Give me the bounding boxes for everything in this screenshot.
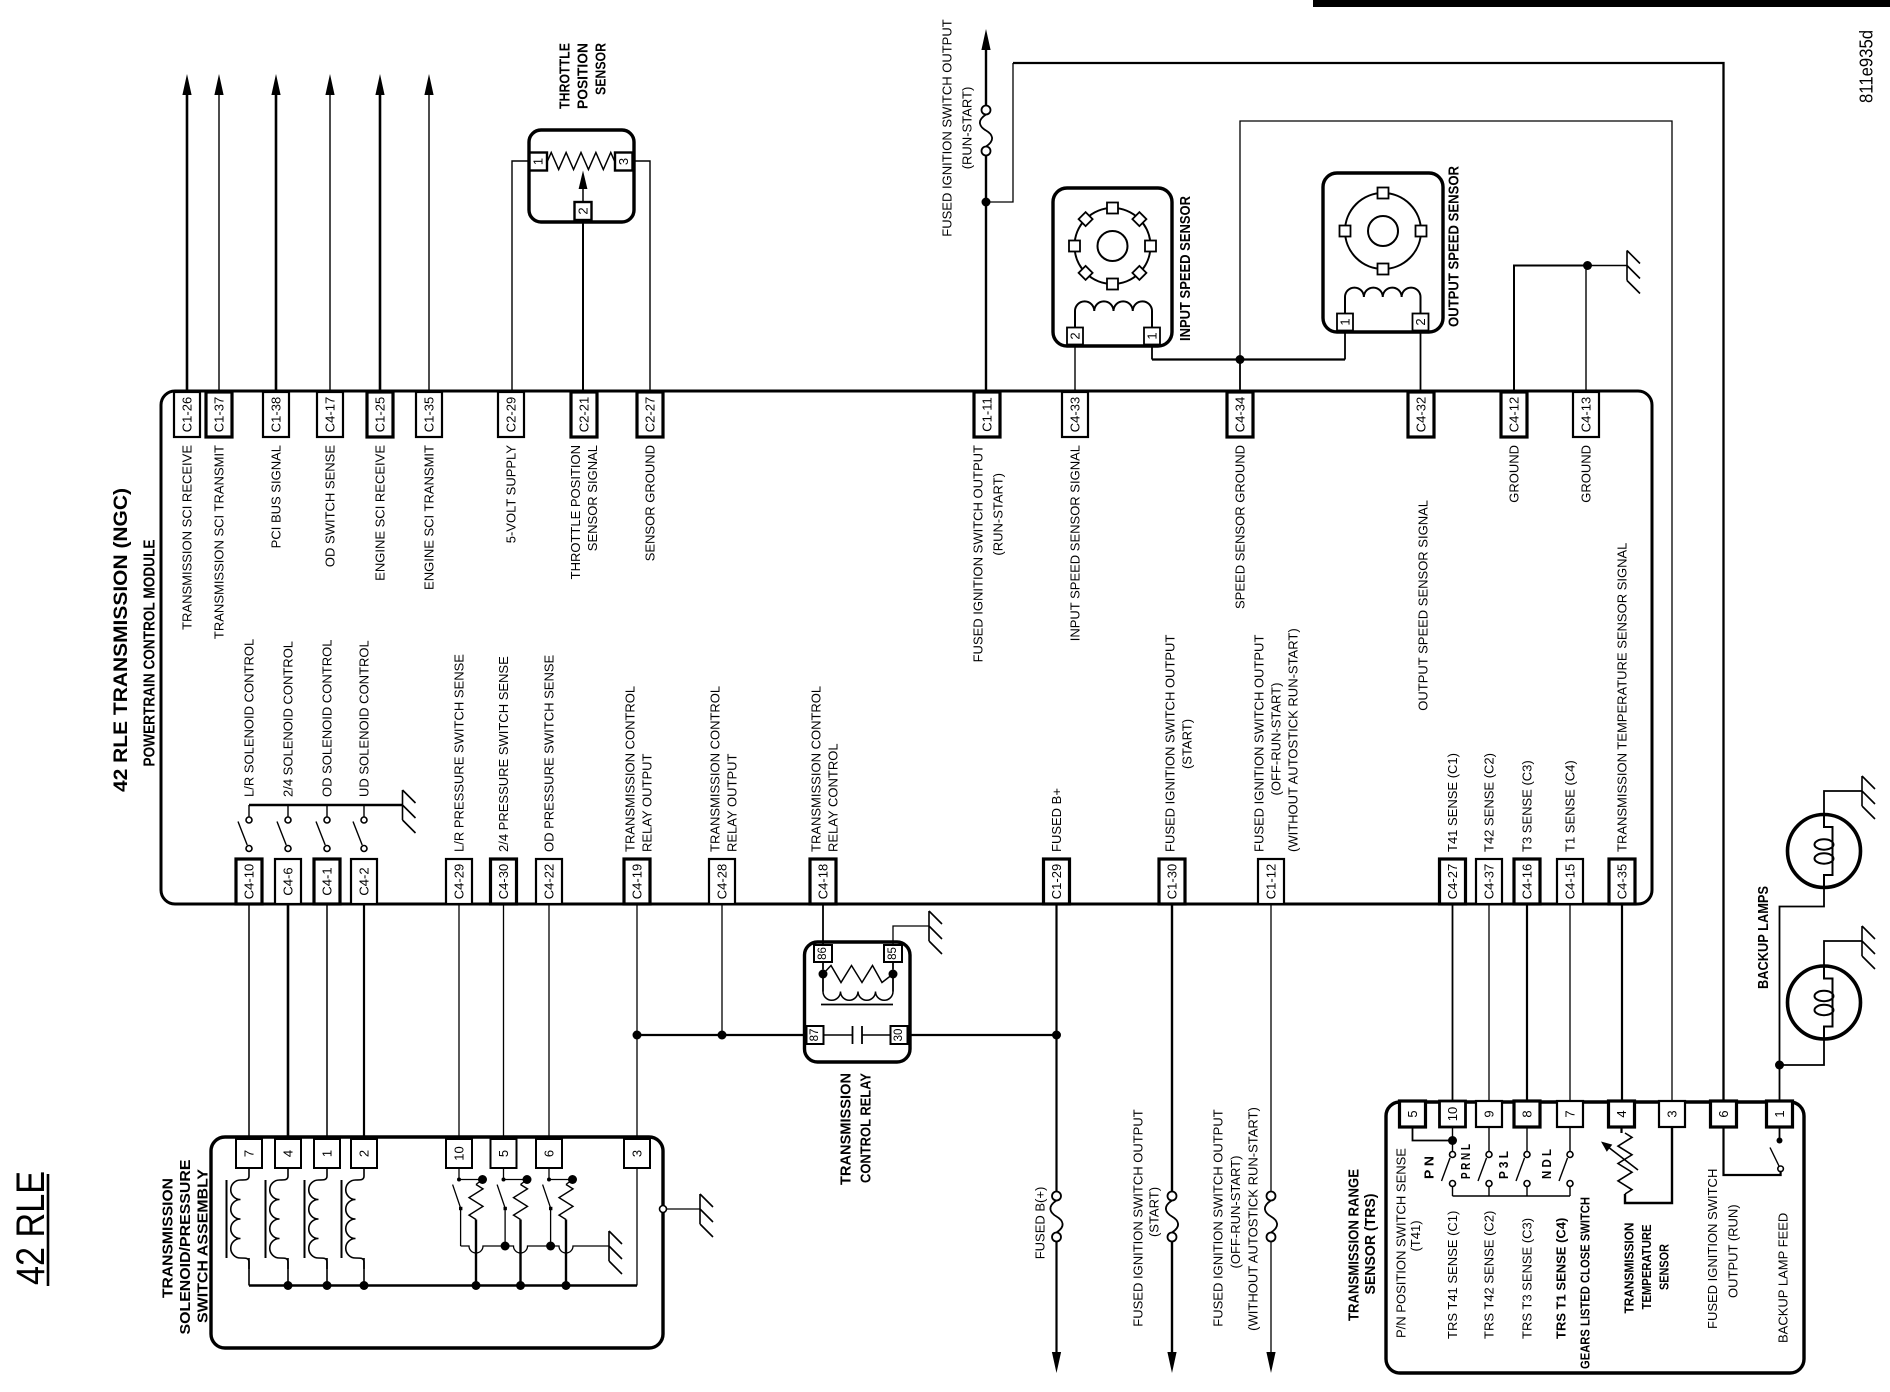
svg-text:TRANSMISSION SCI RECEIVE: TRANSMISSION SCI RECEIVE bbox=[180, 445, 195, 630]
svg-text:N D L: N D L bbox=[1539, 1149, 1554, 1179]
svg-text:C4-1: C4-1 bbox=[320, 867, 335, 895]
svg-text:TRANSMISSION: TRANSMISSION bbox=[1622, 1223, 1637, 1314]
svg-text:UD SOLENOID CONTROL: UD SOLENOID CONTROL bbox=[357, 640, 372, 797]
arrowhead run-start feed bbox=[981, 29, 990, 50]
TRS switch P 3 L bbox=[1526, 1127, 1528, 1152]
svg-text:(START): (START) bbox=[1180, 719, 1195, 769]
fuse ignition start bbox=[1168, 1192, 1177, 1201]
TRS pin 3 bbox=[1659, 1101, 1685, 1127]
svg-text:FUSED B+: FUSED B+ bbox=[1049, 788, 1064, 852]
svg-text:ENGINE SCI RECEIVE: ENGINE SCI RECEIVE bbox=[373, 445, 388, 581]
wire from C1-25 upward bbox=[379, 95, 382, 391]
svg-text:1: 1 bbox=[1338, 318, 1353, 325]
pin C1-26 bbox=[174, 392, 200, 437]
assembly pin 4 bbox=[275, 1139, 301, 1168]
wire PCM to TRS at x=1452.5 bbox=[1452, 904, 1454, 1101]
pressure switch ground line with hops bbox=[461, 1246, 499, 1253]
svg-text:RELAY OUTPUT: RELAY OUTPUT bbox=[725, 753, 740, 852]
pin C4-33 bbox=[1062, 392, 1088, 437]
svg-text:P R N L: P R N L bbox=[1458, 1144, 1473, 1179]
arrowhead C1-25 bbox=[375, 74, 384, 95]
assembly pin 2 bbox=[351, 1139, 377, 1168]
svg-text:BACKUP LAMPS: BACKUP LAMPS bbox=[1755, 886, 1772, 989]
svg-text:C4-37: C4-37 bbox=[1482, 864, 1497, 899]
wire input sensor pin2 to C4-33 bbox=[1074, 345, 1076, 391]
fuse ignition off-run-start bbox=[1267, 1192, 1276, 1201]
header bar bbox=[1313, 0, 1890, 7]
pressure switch blade bbox=[453, 1185, 461, 1208]
pressure switch resistor bbox=[521, 1180, 528, 1185]
junction speed sensor ground bbox=[1236, 355, 1245, 364]
svg-text:C2-27: C2-27 bbox=[643, 397, 658, 432]
svg-text:3: 3 bbox=[1665, 1110, 1680, 1117]
throttle sensor pin 1 bbox=[530, 153, 548, 171]
pin C1-38 bbox=[263, 392, 289, 437]
solenoid coil at pin x=288 bbox=[270, 1169, 288, 1269]
svg-text:GEARS LISTED CLOSE SWITCH: GEARS LISTED CLOSE SWITCH bbox=[1578, 1197, 1593, 1369]
solenoid coil at pin x=327 bbox=[309, 1169, 327, 1269]
svg-text:C4-32: C4-32 bbox=[1414, 397, 1429, 432]
pin C1-29 bbox=[1044, 859, 1070, 904]
svg-text:C4-19: C4-19 bbox=[630, 864, 645, 899]
pin C4-1 bbox=[314, 859, 340, 904]
wire speed sensor return to TRS pin 3 bbox=[1240, 121, 1672, 1101]
throttle sensor pin 2 bbox=[575, 202, 592, 220]
svg-text:C1-30: C1-30 bbox=[1165, 864, 1180, 899]
svg-text:POSITION: POSITION bbox=[575, 43, 592, 109]
svg-text:(WITHOUT AUTOSTICK RUN-START): (WITHOUT AUTOSTICK RUN-START) bbox=[1286, 628, 1301, 852]
output speed sensor bbox=[1323, 173, 1443, 332]
pin C4-13 bbox=[1573, 392, 1599, 437]
svg-text:C4-2: C4-2 bbox=[357, 867, 372, 895]
TRS switch common bus bbox=[1453, 1195, 1571, 1197]
junction resistor top bbox=[478, 1175, 487, 1184]
svg-text:FUSED IGNITION SWITCH OUTPUT: FUSED IGNITION SWITCH OUTPUT bbox=[1252, 635, 1267, 852]
solenoid driver switch at x=288 bbox=[287, 805, 289, 817]
pressure switch circuit at pin x=459 bbox=[458, 1168, 460, 1180]
junction backup lamp feed bbox=[1775, 1061, 1784, 1070]
wire PCM to TRS at x=1527 bbox=[1526, 904, 1528, 1101]
transmission temperature sensor thermistor bbox=[1620, 1127, 1622, 1133]
TRS pin 7 bbox=[1557, 1101, 1583, 1127]
svg-text:C4-29: C4-29 bbox=[452, 864, 467, 899]
svg-text:C2-29: C2-29 bbox=[504, 397, 519, 432]
svg-text:TRS T3 SENSE (C3): TRS T3 SENSE (C3) bbox=[1520, 1218, 1535, 1339]
pin C4-28 bbox=[709, 859, 735, 904]
svg-text:T1 SENSE (C4): T1 SENSE (C4) bbox=[1563, 760, 1578, 852]
junction pin5 pin10 bbox=[1448, 1136, 1457, 1145]
svg-text:TRS T1 SENSE (C4): TRS T1 SENSE (C4) bbox=[1554, 1218, 1569, 1339]
svg-text:C4-13: C4-13 bbox=[1579, 397, 1594, 432]
wire TRS pin 6 to lamp switch bbox=[1724, 1127, 1781, 1175]
pin C4-29 bbox=[446, 859, 472, 904]
svg-text:(RUN-START): (RUN-START) bbox=[991, 473, 1006, 556]
TRS pin 10 bbox=[1440, 1101, 1466, 1127]
PCM module box - POWERTRAIN CONTROL MODULE bbox=[161, 391, 1652, 904]
svg-text:C4-15: C4-15 bbox=[1563, 864, 1578, 899]
throttle position sensor box bbox=[529, 130, 634, 222]
relay pin 30 bbox=[891, 1026, 908, 1044]
pin C4-10 bbox=[236, 859, 262, 904]
wire PCM to TRS at x=1622 bbox=[1621, 904, 1623, 1101]
svg-text:POWERTRAIN CONTROL MODULE: POWERTRAIN CONTROL MODULE bbox=[142, 540, 159, 767]
svg-text:SENSOR GROUND: SENSOR GROUND bbox=[643, 445, 658, 561]
assembly common bus bbox=[249, 1284, 637, 1286]
wire PCM to assembly at x=327 bbox=[326, 904, 328, 1139]
svg-text:BACKUP LAMP FEED: BACKUP LAMP FEED bbox=[1776, 1213, 1791, 1343]
svg-text:2/4 SOLENOID CONTROL: 2/4 SOLENOID CONTROL bbox=[281, 641, 296, 797]
svg-text:OD SWITCH SENSE: OD SWITCH SENSE bbox=[323, 445, 338, 567]
pin C4-19 bbox=[624, 859, 650, 904]
svg-text:L/R PRESSURE SWITCH SENSE: L/R PRESSURE SWITCH SENSE bbox=[452, 654, 467, 852]
svg-text:C1-12: C1-12 bbox=[1264, 864, 1279, 899]
svg-text:TRANSMISSION SCI TRANSMIT: TRANSMISSION SCI TRANSMIT bbox=[212, 445, 227, 639]
wire coil to common bus bbox=[363, 1258, 365, 1286]
svg-text:C1-11: C1-11 bbox=[980, 397, 995, 431]
input speed sensor bbox=[1053, 188, 1172, 346]
svg-text:2/4 PRESSURE SWITCH SENSE: 2/4 PRESSURE SWITCH SENSE bbox=[496, 656, 511, 852]
TRS switch P N bbox=[1452, 1127, 1454, 1152]
wire input sensor pin1 to speed sensor ground bus bbox=[1151, 345, 1153, 360]
svg-text:OD SOLENOID CONTROL: OD SOLENOID CONTROL bbox=[320, 640, 335, 797]
wire PCM to TRS at x=1570 bbox=[1569, 904, 1571, 1101]
svg-text:T42 SENSE (C2): T42 SENSE (C2) bbox=[1482, 753, 1497, 852]
ground for C4-12 C4-13 bbox=[1627, 251, 1640, 294]
wire junction to C4-34 bbox=[1239, 360, 1241, 392]
transmission control relay box bbox=[805, 942, 911, 1062]
svg-text:4: 4 bbox=[281, 1150, 296, 1157]
wire PCM to assembly at x=288 bbox=[287, 904, 290, 1139]
svg-text:OUTPUT SPEED SENSOR SIGNAL: OUTPUT SPEED SENSOR SIGNAL bbox=[1416, 500, 1431, 711]
svg-text:FUSED IGNITION SWITCH OUTPUT: FUSED IGNITION SWITCH OUTPUT bbox=[1131, 1109, 1146, 1326]
svg-text:GROUND: GROUND bbox=[1579, 445, 1594, 503]
pin C2-29 bbox=[498, 392, 524, 437]
svg-text:C4-12: C4-12 bbox=[1507, 397, 1522, 432]
pin C4-37 bbox=[1476, 859, 1502, 904]
wire fused B+ from C1-29 bbox=[1055, 904, 1057, 1192]
backup lamp lower bbox=[1788, 966, 1861, 1039]
wire coil to common bus bbox=[326, 1258, 328, 1286]
svg-text:5: 5 bbox=[496, 1150, 511, 1157]
arrowhead C1-38 bbox=[271, 74, 280, 95]
svg-text:SENSOR: SENSOR bbox=[593, 43, 610, 95]
wire from C4-17 upward bbox=[329, 95, 331, 391]
wire switch to ground line bbox=[550, 1210, 552, 1246]
assembly pin 5 bbox=[491, 1139, 517, 1168]
svg-text:85: 85 bbox=[887, 947, 899, 960]
throttle sensor pin 3 bbox=[615, 153, 633, 171]
svg-text:10: 10 bbox=[1445, 1107, 1460, 1121]
svg-text:5-VOLT SUPPLY: 5-VOLT SUPPLY bbox=[504, 445, 519, 544]
svg-text:C2-21: C2-21 bbox=[577, 397, 592, 432]
pin C4-35 bbox=[1609, 859, 1635, 904]
svg-text:1: 1 bbox=[1145, 332, 1160, 339]
TRS pin 8 bbox=[1514, 1101, 1540, 1127]
svg-text:811e935d: 811e935d bbox=[1857, 30, 1877, 103]
wire switch to ground line bbox=[460, 1210, 462, 1246]
svg-text:87: 87 bbox=[809, 1029, 821, 1042]
svg-text:TRANSMISSION CONTROL: TRANSMISSION CONTROL bbox=[623, 686, 638, 852]
svg-text:TEMPERATURE: TEMPERATURE bbox=[1639, 1224, 1654, 1309]
svg-text:FUSED IGNITION SWITCH OUTPUT: FUSED IGNITION SWITCH OUTPUT bbox=[1211, 1109, 1226, 1326]
junction resistor top bbox=[523, 1175, 532, 1184]
wire coil to common bus bbox=[287, 1258, 289, 1286]
pin C4-30 bbox=[491, 859, 517, 904]
svg-text:TRANSMISSION RANGE: TRANSMISSION RANGE bbox=[1346, 1169, 1363, 1321]
pin C1-25 bbox=[367, 392, 393, 437]
pin C4-18 bbox=[810, 859, 836, 904]
svg-text:C4-16: C4-16 bbox=[1520, 864, 1535, 899]
transmission solenoid/pressure switch assembly box bbox=[211, 1137, 663, 1348]
relay contact bbox=[824, 1034, 853, 1036]
wire fused ignition start from C1-30 bbox=[1171, 904, 1173, 1192]
svg-text:1: 1 bbox=[531, 158, 546, 165]
junction resistor top bbox=[568, 1175, 577, 1184]
svg-text:(START): (START) bbox=[1147, 1187, 1162, 1237]
pin C2-21 bbox=[571, 392, 597, 437]
svg-text:THROTTLE POSITION: THROTTLE POSITION bbox=[568, 445, 583, 579]
pressure switch circuit at pin x=549 bbox=[548, 1168, 550, 1180]
svg-text:C4-17: C4-17 bbox=[323, 397, 338, 432]
pin C4-16 bbox=[1514, 859, 1540, 904]
wire PCM to assembly at x=249 bbox=[248, 904, 250, 1139]
solenoid driver common bus bbox=[249, 804, 403, 807]
pin C4-17 bbox=[317, 392, 343, 437]
TRS pin 6 bbox=[1711, 1101, 1737, 1127]
svg-text:C4-6: C4-6 bbox=[281, 867, 296, 895]
wire resistor to bus bbox=[519, 1220, 521, 1286]
svg-text:SOLENOID/PRESSURE: SOLENOID/PRESSURE bbox=[177, 1160, 194, 1335]
throttle sensor resistor element bbox=[548, 153, 615, 170]
transmission range sensor TRS box bbox=[1386, 1102, 1804, 1373]
svg-text:TRANSMISSION CONTROL: TRANSMISSION CONTROL bbox=[809, 686, 824, 852]
assembly case ground bbox=[660, 1206, 667, 1213]
wire throttle pin2 to C2-21 signal bbox=[582, 220, 584, 391]
svg-text:C1-29: C1-29 bbox=[1049, 864, 1064, 899]
ground relay bbox=[929, 911, 942, 954]
svg-text:(T41): (T41) bbox=[1408, 1220, 1423, 1251]
svg-text:FUSED IGNITION SWITCH OUTPUT: FUSED IGNITION SWITCH OUTPUT bbox=[1163, 635, 1178, 852]
wire resistor to bus bbox=[475, 1220, 477, 1286]
ground upper backup lamp bbox=[1862, 776, 1875, 819]
pressure switch blade bbox=[543, 1185, 551, 1208]
svg-text:C4-33: C4-33 bbox=[1068, 397, 1083, 432]
pin C4-32 bbox=[1408, 392, 1434, 437]
pin C2-27 bbox=[637, 392, 663, 437]
svg-text:C4-28: C4-28 bbox=[715, 864, 730, 899]
pin C4-12 bbox=[1501, 392, 1527, 437]
relay coil ground wire bbox=[893, 926, 929, 945]
svg-text:3: 3 bbox=[630, 1150, 645, 1157]
wire output sensor pin2 to C4-32 bbox=[1420, 331, 1422, 392]
solenoid driver switch at x=327 bbox=[326, 805, 328, 817]
ground lower backup lamp bbox=[1862, 926, 1875, 969]
svg-text:SENSOR (TRS): SENSOR (TRS) bbox=[1362, 1194, 1379, 1295]
pressure switch resistor bbox=[476, 1180, 483, 1185]
wire PCM to assembly at x=364 bbox=[363, 904, 365, 1139]
assembly pin 6 bbox=[536, 1139, 562, 1168]
assembly pin 3 bbox=[624, 1139, 650, 1168]
TRS pin 4 bbox=[1609, 1101, 1635, 1127]
pin C4-15 bbox=[1557, 859, 1583, 904]
wire C4-28 to relay line bbox=[721, 904, 723, 1035]
relay output line bbox=[637, 1034, 806, 1036]
svg-text:(OFF-RUN-START): (OFF-RUN-START) bbox=[1228, 1156, 1243, 1269]
svg-text:PCI BUS SIGNAL: PCI BUS SIGNAL bbox=[269, 445, 284, 548]
arrowhead C1-35 bbox=[424, 74, 433, 95]
wire C4-12 ground bbox=[1514, 266, 1586, 392]
TRS pin 1 bbox=[1767, 1101, 1793, 1127]
svg-text:C4-22: C4-22 bbox=[542, 864, 557, 899]
svg-text:C4-27: C4-27 bbox=[1445, 864, 1460, 899]
pin C4-27 bbox=[1440, 859, 1466, 904]
wire C4-18 to relay pin 86 bbox=[822, 904, 824, 944]
wire TRS pin 5 to P N switch bbox=[1413, 1127, 1453, 1141]
svg-text:TRANSMISSION CONTROL: TRANSMISSION CONTROL bbox=[708, 686, 723, 852]
wire throttle pin3 to C2-27 sensor ground bbox=[633, 161, 651, 391]
junction relay output bbox=[633, 1031, 642, 1040]
svg-text:SENSOR SIGNAL: SENSOR SIGNAL bbox=[585, 445, 600, 551]
arrowhead C1-37 bbox=[214, 74, 223, 95]
wire output sensor pin1 to ground bus bbox=[1344, 331, 1346, 360]
pin C1-11 bbox=[974, 392, 1000, 437]
pressure switch circuit at pin x=503.5 bbox=[503, 1168, 505, 1180]
solenoid driver switch at x=364 bbox=[363, 805, 365, 817]
relay pin 85 bbox=[884, 945, 902, 962]
svg-text:C4-30: C4-30 bbox=[496, 864, 511, 899]
svg-text:3: 3 bbox=[616, 158, 631, 165]
svg-text:42 RLE: 42 RLE bbox=[9, 1171, 53, 1285]
speed sensor ground bus wire bbox=[1152, 358, 1345, 360]
wire from C1-35 upward bbox=[428, 95, 430, 391]
pin C4-34 bbox=[1227, 392, 1253, 437]
svg-text:FUSED IGNITION SWITCH OUTPUT: FUSED IGNITION SWITCH OUTPUT bbox=[940, 19, 955, 236]
svg-text:6: 6 bbox=[542, 1150, 557, 1157]
svg-text:(RUN-START): (RUN-START) bbox=[960, 87, 975, 170]
pin C4-22 bbox=[536, 859, 562, 904]
svg-text:(OFF-RUN-START): (OFF-RUN-START) bbox=[1269, 683, 1284, 796]
wire lower lamp to ground bbox=[1824, 941, 1862, 966]
pressure switch resistor bbox=[566, 1180, 573, 1185]
relay pin 86 bbox=[814, 945, 832, 962]
svg-text:RELAY CONTROL: RELAY CONTROL bbox=[826, 743, 841, 852]
svg-text:OD PRESSURE SWITCH SENSE: OD PRESSURE SWITCH SENSE bbox=[542, 654, 557, 852]
svg-text:L/R SOLENOID CONTROL: L/R SOLENOID CONTROL bbox=[242, 639, 257, 797]
throttle sensor wiper arrow bbox=[582, 187, 584, 202]
svg-text:P/N POSITION SWITCH SENSE: P/N POSITION SWITCH SENSE bbox=[1394, 1148, 1409, 1338]
svg-text:1: 1 bbox=[320, 1150, 335, 1157]
svg-text:P 3 L: P 3 L bbox=[1496, 1151, 1511, 1179]
svg-text:C1-26: C1-26 bbox=[180, 397, 195, 432]
backup lamp upper bbox=[1788, 815, 1861, 888]
assembly pin 1 bbox=[314, 1139, 340, 1168]
solenoid coil at pin x=364 bbox=[346, 1169, 364, 1269]
svg-text:6: 6 bbox=[1716, 1110, 1731, 1117]
svg-text:TRANSMISSION TEMPERATURE SENSO: TRANSMISSION TEMPERATURE SENSOR SIGNAL bbox=[1615, 543, 1630, 852]
svg-text:FUSED IGNITION SWITCH OUTPUT: FUSED IGNITION SWITCH OUTPUT bbox=[971, 445, 986, 662]
svg-text:C4-10: C4-10 bbox=[242, 864, 257, 899]
TRS pin 9 bbox=[1476, 1101, 1502, 1127]
assembly pin 7 bbox=[236, 1139, 262, 1168]
svg-text:4: 4 bbox=[1614, 1110, 1629, 1117]
solenoid driver switch at x=249 bbox=[248, 805, 250, 817]
svg-text:C1-25: C1-25 bbox=[373, 397, 388, 432]
svg-text:CONTROL RELAY: CONTROL RELAY bbox=[858, 1073, 875, 1183]
svg-text:OUTPUT (RUN): OUTPUT (RUN) bbox=[1726, 1204, 1741, 1298]
svg-text:T3 SENSE (C3): T3 SENSE (C3) bbox=[1520, 760, 1535, 852]
svg-text:T41 SENSE (C1): T41 SENSE (C1) bbox=[1445, 753, 1460, 852]
svg-text:7: 7 bbox=[1563, 1110, 1578, 1117]
svg-text:RELAY OUTPUT: RELAY OUTPUT bbox=[640, 753, 655, 852]
svg-text:TRANSMISSION: TRANSMISSION bbox=[160, 1178, 177, 1298]
svg-text:9: 9 bbox=[1482, 1110, 1497, 1117]
pressure switch blade bbox=[497, 1185, 505, 1208]
solenoid coil at pin x=249 bbox=[231, 1169, 249, 1269]
relay pin 87 bbox=[807, 1026, 824, 1044]
TRS switch N D L bbox=[1569, 1127, 1571, 1152]
svg-text:SWITCH ASSEMBLY: SWITCH ASSEMBLY bbox=[195, 1169, 212, 1323]
svg-text:C4-35: C4-35 bbox=[1615, 864, 1630, 899]
wire throttle pin1 to C2-29 5-volt supply bbox=[512, 161, 530, 391]
pin C1-12 bbox=[1258, 859, 1284, 904]
svg-text:TRS T42 SENSE (C2): TRS T42 SENSE (C2) bbox=[1482, 1211, 1497, 1339]
wire PCM to assembly at x=549 bbox=[548, 904, 550, 1139]
svg-text:86: 86 bbox=[817, 947, 829, 960]
svg-text:FUSED IGNITION SWITCH: FUSED IGNITION SWITCH bbox=[1705, 1169, 1720, 1329]
pin C4-2 bbox=[351, 859, 377, 904]
svg-text:P N: P N bbox=[1422, 1156, 1437, 1179]
wire from C1-26 upward bbox=[186, 95, 189, 391]
arrowhead ignition off-run-start bbox=[1266, 1352, 1275, 1373]
svg-text:GROUND: GROUND bbox=[1507, 445, 1522, 503]
svg-text:ENGINE SCI TRANSMIT: ENGINE SCI TRANSMIT bbox=[422, 445, 437, 590]
junction run-start branch bbox=[982, 198, 991, 207]
fuse in run-start feed bbox=[982, 106, 991, 115]
relay coil bbox=[822, 962, 824, 970]
wire fused ignition switch output run-start bbox=[985, 50, 987, 106]
svg-text:C4-18: C4-18 bbox=[816, 864, 831, 899]
TRS switch P R N L bbox=[1488, 1127, 1490, 1152]
wire resistor to bus bbox=[565, 1220, 567, 1286]
wire ignition off-run-start from C1-12 bbox=[1270, 904, 1272, 1192]
svg-text:2: 2 bbox=[576, 207, 591, 214]
svg-text:7: 7 bbox=[242, 1150, 257, 1157]
svg-text:TRANSMISSION: TRANSMISSION bbox=[838, 1073, 855, 1185]
arrowhead fused B+ bbox=[1052, 1352, 1061, 1373]
svg-text:8: 8 bbox=[1520, 1110, 1535, 1117]
wire upper lamp to ground bbox=[1824, 791, 1862, 815]
wire TRS pin 1 to backup lamps bbox=[1779, 1065, 1781, 1101]
wire PCM to assembly at x=503.5 bbox=[503, 904, 505, 1139]
svg-text:5: 5 bbox=[1405, 1110, 1420, 1117]
svg-text:SENSOR: SENSOR bbox=[1657, 1243, 1672, 1290]
wire PCM to TRS at x=1489 bbox=[1488, 904, 1490, 1101]
svg-text:2: 2 bbox=[1068, 332, 1083, 339]
svg-text:C1-37: C1-37 bbox=[212, 397, 227, 432]
svg-text:1: 1 bbox=[1772, 1110, 1787, 1117]
svg-text:2: 2 bbox=[1413, 318, 1428, 325]
pin C1-37 bbox=[206, 392, 232, 437]
svg-text:2: 2 bbox=[357, 1150, 372, 1157]
TRS pin 5 bbox=[1400, 1101, 1426, 1127]
wire C4-19 to assembly pin 3 bbox=[636, 904, 638, 1139]
svg-text:C1-35: C1-35 bbox=[422, 397, 437, 432]
wire from C1-37 upward bbox=[218, 95, 220, 391]
arrowhead ignition start bbox=[1167, 1352, 1176, 1373]
ground pressure switches bbox=[609, 1231, 622, 1274]
svg-text:C1-38: C1-38 bbox=[269, 397, 284, 432]
svg-text:42 RLE TRANSMISSION (NGC): 42 RLE TRANSMISSION (NGC) bbox=[110, 488, 132, 792]
